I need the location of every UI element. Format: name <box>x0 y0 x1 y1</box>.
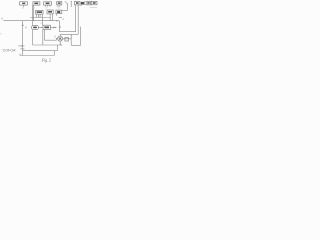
arrowhead into mixer <box>56 38 58 39</box>
box C2 <box>47 10 53 14</box>
wire horizontal y34.4 <box>60 33 78 35</box>
wire C3 bottom tick <box>56 14 58 16</box>
box B8 <box>91 1 97 5</box>
wire bus corner down right <box>58 21 60 32</box>
wire arrow D1 to D2 <box>38 27 42 29</box>
wire bottom horizontal y55.4 <box>20 54 54 56</box>
wire mixer top input <box>59 34 61 36</box>
wire vertical from 7 to C3 <box>67 4 69 10</box>
oval D1 <box>32 25 39 29</box>
arrow tick on feedback 3 <box>20 48 24 50</box>
wire horizontal y45.0 <box>33 44 63 46</box>
arrowhead D1D2 <box>41 27 43 28</box>
box B5 <box>74 2 80 5</box>
arrowhead y45 end <box>61 44 63 45</box>
mixer cross <box>59 37 62 40</box>
wire double vertical from B2 <box>33 5 34 25</box>
wire 7 leader <box>66 3 68 5</box>
wire long vertical x71.2 <box>70 2 72 45</box>
box D2 text <box>44 27 49 29</box>
wire feedback vertical left <box>22 21 24 56</box>
wire B1 tick <box>23 5 25 7</box>
wire D1 drop <box>32 30 34 45</box>
box B1 text <box>22 3 25 4</box>
wire vertical B5a <box>75 5 77 32</box>
wire bottom horizontal y50.7 <box>23 50 58 52</box>
label tick top right <box>71 0 72 3</box>
wire B4 ticks <box>58 5 60 7</box>
box C1 <box>36 10 43 14</box>
wire mixer output <box>63 38 72 40</box>
wire C1 to D2 vertical <box>42 14 44 25</box>
box B3 <box>44 2 52 5</box>
bracket mark <box>85 2 87 5</box>
box B2 text <box>34 3 38 5</box>
arrowhead mixer output <box>63 38 65 39</box>
box B6 text block <box>81 2 84 5</box>
wire C2 drop <box>49 14 51 21</box>
wire horizontal y45.3 <box>71 44 80 46</box>
box C1 text <box>37 11 42 13</box>
box B2 <box>33 2 40 5</box>
svg-text:Fig. 2: Fig. 2 <box>41 59 51 63</box>
bus arrowhead <box>56 20 58 22</box>
mixer circle <box>58 36 63 41</box>
wire riser x55.3 <box>53 51 55 56</box>
wire vertical x80.6 <box>80 27 82 46</box>
oval D1 text <box>33 27 37 29</box>
arrowhead feedback 2 <box>21 45 23 46</box>
box B7 <box>87 1 90 5</box>
wire C1 ticks <box>37 14 40 17</box>
box E1 small <box>65 38 69 41</box>
slash on arrow <box>53 27 54 29</box>
box B1 <box>20 2 28 5</box>
wire B3 ticks <box>45 5 50 7</box>
arrowhead D2 out <box>55 27 57 28</box>
arrow tick on feedback 2 <box>18 45 24 47</box>
arrow tick on feedback 1 <box>22 24 24 26</box>
wire C2 drop2 <box>51 14 53 21</box>
wire horizontal right y31.7 <box>59 31 75 33</box>
wire mixer bottom <box>59 41 61 45</box>
box B8 text <box>93 2 96 4</box>
wire vertical B5b <box>77 5 79 35</box>
wire riser x57.3 <box>56 45 58 51</box>
wire step C3 to 7 <box>62 9 68 11</box>
wire B6 tick <box>80 5 82 7</box>
wire horizontal mid <box>30 17 50 19</box>
box B7 text <box>88 2 90 4</box>
wire horizontal y40.2 into mixer <box>44 39 56 41</box>
box B4 text <box>58 2 61 3</box>
box B3 text <box>46 3 50 5</box>
box B4 <box>57 2 62 5</box>
box C3 <box>56 10 62 14</box>
wire D2 drop pair <box>43 30 45 45</box>
box C3 text <box>57 11 60 13</box>
box C2 text <box>48 11 52 13</box>
box D2 <box>43 25 50 30</box>
wire arrow D2 out <box>50 27 56 29</box>
wire main bus <box>3 20 59 22</box>
label under B8 <box>90 6 97 9</box>
svg-text:‘COFOA’: ‘COFOA’ <box>2 48 16 52</box>
box B5 text <box>76 2 79 4</box>
wire stub y17.5 right <box>59 17 62 19</box>
mixer center dot <box>60 38 61 39</box>
